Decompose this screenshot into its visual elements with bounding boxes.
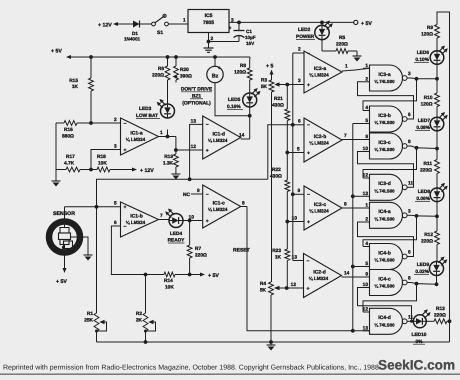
svg-text:IC1-c: IC1-c — [213, 201, 225, 207]
LED10 — [411, 320, 413, 322]
NAND gate IC3-d quarter 74LS00 — [370, 174, 403, 200]
node LED6 bottom — [435, 77, 439, 81]
svg-text:8: 8 — [408, 139, 411, 145]
wire R4 to bottom rail — [270, 295, 272, 342]
svg-text:R2: R2 — [136, 311, 142, 317]
svg-text:R15: R15 — [69, 78, 78, 84]
svg-text:Reprinted with permission from: Reprinted with permission from Radio-Ele… — [3, 364, 379, 372]
svg-text:5: 5 — [365, 118, 368, 124]
wire IC3-c out to LED7 node — [411, 146, 417, 148]
svg-text:¼ 74LS00: ¼ 74LS00 — [374, 79, 395, 84]
svg-text:430Ω: 430Ω — [270, 174, 282, 180]
svg-text:+ 5V: + 5V — [208, 273, 219, 279]
svg-text:120Ω: 120Ω — [234, 70, 246, 76]
node R20 top — [174, 55, 178, 59]
resistor R12 220 ohm — [436, 216, 438, 231]
node LED3 cathode — [166, 135, 170, 139]
svg-text:9: 9 — [365, 134, 368, 140]
potentiometer R3 5K — [269, 80, 274, 92]
svg-text:9: 9 — [298, 188, 301, 194]
svg-text:6: 6 — [298, 119, 301, 125]
svg-text:−: − — [307, 51, 310, 57]
svg-text:R18: R18 — [97, 154, 106, 160]
svg-text:4: 4 — [365, 241, 368, 247]
svg-text:3: 3 — [114, 144, 117, 150]
resistor R20 390 ohm — [175, 57, 177, 66]
svg-text:R7: R7 — [195, 246, 201, 252]
svg-text:R10: R10 — [424, 95, 433, 101]
node divider tap A — [285, 83, 289, 87]
svg-text:IC2-d: IC2-d — [313, 270, 326, 276]
IC4-b output stub — [407, 256, 411, 258]
IC3-b output stub — [407, 118, 411, 120]
svg-text:−: − — [206, 122, 209, 128]
wire S1 to IC5 pin 1 — [169, 23, 189, 25]
svg-text:3: 3 — [298, 78, 301, 84]
LED6 — [436, 38, 438, 51]
svg-text:1: 1 — [160, 130, 163, 136]
wire C1 to IC5 ground node — [209, 41, 240, 43]
svg-text:10K: 10K — [165, 285, 174, 291]
wire IC1-a out to R19 — [175, 137, 177, 151]
svg-text:LED5: LED5 — [228, 97, 241, 103]
resistor R8 120K — [249, 80, 251, 93]
svg-text:2: 2 — [114, 117, 117, 123]
resistor R5 220 ohm — [336, 49, 348, 54]
latch wires IC4-a/IC4-b — [363, 216, 417, 247]
svg-text:1: 1 — [345, 64, 348, 70]
svg-text:+ 5: + 5 — [266, 64, 273, 70]
svg-text:13: 13 — [191, 119, 197, 125]
svg-text:S1: S1 — [157, 30, 163, 36]
potentiometer R1 25K — [94, 313, 99, 331]
buzzer BZ1 — [214, 57, 216, 67]
svg-text:4: 4 — [365, 105, 368, 111]
comparator IC2-c — [304, 186, 342, 230]
resistor R6 220 ohm — [167, 57, 169, 66]
bottom ground rail — [97, 341, 450, 343]
svg-text:1: 1 — [365, 63, 368, 69]
svg-text:−: − — [124, 224, 127, 230]
node R17/R18/IC1-a pin3 — [89, 168, 93, 172]
node divider tap B — [285, 151, 289, 155]
wire IC4-a out to LED8 node — [411, 214, 417, 217]
latch wires IC3-a/IC3-b — [363, 79, 417, 111]
svg-text:NC: NC — [183, 192, 190, 198]
svg-text:+ 5V: + 5V — [51, 49, 62, 55]
node LED2 anode — [320, 21, 324, 25]
sensor right lead to ground — [71, 237, 89, 252]
wire tap B to IC2-b pin 5 — [287, 152, 304, 154]
svg-text:R9: R9 — [427, 25, 433, 31]
ground right of R5 — [356, 53, 358, 56]
wire R2 to bottom rail — [145, 331, 147, 342]
resistor R14 10K — [146, 274, 165, 276]
svg-text:R19: R19 — [164, 154, 173, 160]
latch wires IC4-c/IC4-d — [363, 284, 417, 312]
svg-text:120Ω: 120Ω — [421, 102, 433, 108]
wire R15 to node — [90, 91, 92, 123]
wire signal line riser — [268, 125, 293, 180]
node LED5 cathode — [248, 114, 252, 118]
node signal IC2-c pin 9 — [291, 192, 295, 196]
svg-text:4.7K: 4.7K — [64, 161, 75, 167]
wire IC2-b output pin 7 to IC3-c pin 9 — [342, 139, 370, 141]
svg-text:390Ω: 390Ω — [180, 74, 192, 80]
comparator IC2-a — [304, 51, 342, 93]
node RESET bottom — [351, 329, 355, 333]
svg-text:2K: 2K — [136, 318, 143, 324]
svg-text:25K: 25K — [84, 318, 93, 324]
wire R3 bottom chain — [271, 92, 273, 282]
svg-text:13: 13 — [363, 191, 369, 197]
IC4-d output stub — [407, 320, 411, 322]
svg-text:¼ LM324: ¼ LM324 — [208, 207, 228, 212]
resistor R23 1K — [286, 222, 288, 250]
wire R1 to bottom rail — [96, 331, 98, 342]
svg-text:READY: READY — [168, 238, 186, 244]
wire sensor node to R1 — [96, 207, 98, 313]
IC4-a output stub — [407, 214, 411, 216]
svg-text:R23: R23 — [272, 248, 281, 254]
svg-text:IC1-d: IC1-d — [212, 132, 225, 138]
wire IC3-a out to LED6 node — [411, 77, 417, 80]
wire R2 drop — [145, 275, 147, 314]
svg-text:+ 12V: + 12V — [98, 23, 112, 29]
wire +5V output rail from IC5 pin3 — [229, 21, 354, 23]
svg-text:¼ 74LS00: ¼ 74LS00 — [374, 284, 395, 289]
svg-text:12: 12 — [363, 173, 369, 179]
svg-text:R5: R5 — [339, 35, 345, 41]
IC3-c output stub — [407, 145, 411, 147]
node R15 top — [89, 55, 93, 59]
svg-text:IC4-a: IC4-a — [378, 209, 390, 215]
resistor R13 220 ohm — [426, 320, 434, 322]
svg-text:IC3-c: IC3-c — [378, 140, 390, 146]
resistor R17 4.7K — [56, 169, 66, 171]
svg-text:12: 12 — [363, 307, 369, 313]
svg-text:−: − — [307, 123, 310, 129]
potentiometer R2 2K — [143, 313, 148, 331]
node IC5 pin2 ground junction — [207, 40, 211, 44]
svg-text:¼ LM324: ¼ LM324 — [309, 141, 329, 146]
svg-text:220Ω: 220Ω — [420, 168, 432, 174]
IC3-d input stubs — [363, 177, 370, 179]
wire IC1-a pin 2 — [91, 122, 121, 124]
node IC1-a pin2 / R16 — [89, 121, 93, 125]
svg-text:¼ 74LS00: ¼ 74LS00 — [374, 147, 395, 152]
svg-text:¼ LM324: ¼ LM324 — [309, 209, 329, 214]
node R7 bottom — [188, 273, 192, 277]
svg-text:12: 12 — [191, 144, 197, 150]
svg-text:6: 6 — [408, 250, 411, 256]
node signal IC2-b pin 6 — [291, 123, 295, 127]
svg-text:IC4-b: IC4-b — [378, 250, 391, 256]
sensor top lead — [64, 207, 66, 222]
svg-text:+: + — [206, 218, 209, 224]
sensor bottom +5V — [64, 256, 66, 269]
wire IC2-a pin 2 — [293, 52, 304, 54]
wire IC2-c output pin 8 to IC4-a pin 1 — [342, 207, 370, 209]
wire +5V rail left — [71, 56, 250, 58]
svg-text:1.3K: 1.3K — [163, 161, 174, 167]
svg-text:8: 8 — [344, 202, 347, 208]
svg-text:LED6: LED6 — [417, 50, 430, 56]
svg-text:9: 9 — [197, 188, 200, 194]
svg-text:R13: R13 — [436, 306, 445, 312]
IC4-c output stub — [407, 282, 411, 284]
IC4-d input stubs — [363, 311, 370, 313]
svg-text:LED8: LED8 — [418, 189, 431, 195]
svg-text:+: + — [218, 66, 221, 72]
LED4 ready indicator — [169, 214, 183, 228]
LED8 — [430, 188, 444, 202]
svg-text:8: 8 — [408, 276, 411, 282]
svg-text:10K: 10K — [98, 161, 107, 167]
svg-text:10: 10 — [363, 146, 369, 152]
NAND gate IC3-b quarter 74LS00 — [370, 106, 403, 132]
svg-text:+ 5V: + 5V — [361, 21, 372, 27]
wire to +5V arrow bottom — [190, 274, 200, 276]
svg-text:IC5: IC5 — [205, 13, 213, 19]
svg-text:IC1-b: IC1-b — [130, 214, 143, 220]
svg-text:R8: R8 — [240, 63, 246, 69]
svg-text:1N4001: 1N4001 — [124, 37, 141, 42]
svg-text:R20: R20 — [180, 67, 189, 73]
node R7 top — [188, 219, 192, 223]
svg-text:R1: R1 — [87, 311, 93, 317]
resistor R19 1.3K — [175, 150, 177, 154]
svg-text:+: + — [307, 219, 310, 225]
svg-text:IC4-d: IC4-d — [378, 315, 391, 321]
wire sensor node up to signal line — [97, 179, 268, 207]
svg-text:¼ 74LS00: ¼ 74LS00 — [374, 120, 395, 125]
svg-text:+: + — [229, 26, 232, 32]
resistor R7 220 ohm — [189, 221, 191, 246]
node RESET IC4-b pin5 — [351, 265, 355, 269]
svg-text:SeekIC.com: SeekIC.com — [378, 358, 455, 373]
svg-text:R17: R17 — [66, 154, 75, 160]
svg-text:2: 2 — [298, 47, 301, 53]
svg-text:7: 7 — [344, 133, 347, 139]
sensor element symbol — [64, 219, 66, 228]
svg-text:1K: 1K — [275, 255, 282, 261]
comparator IC2-d — [304, 254, 342, 298]
NAND gate IC4-a quarter 74LS00 — [370, 202, 403, 228]
IC4-b input stubs — [363, 246, 370, 248]
resistor R21 430 ohm — [286, 85, 288, 110]
LED9 — [430, 262, 444, 276]
IC3-c input stubs — [363, 139, 370, 141]
svg-text:LED10: LED10 — [412, 332, 427, 338]
svg-text:IC4-c: IC4-c — [378, 276, 390, 282]
wire IC2-d pin 13 — [293, 260, 304, 262]
wire IC1-d pin 12 — [176, 149, 203, 151]
svg-text:¼ 74LS00: ¼ 74LS00 — [374, 258, 395, 263]
svg-text:IC2-c: IC2-c — [314, 202, 326, 208]
wire IC2-a output pin 1 — [342, 70, 355, 71]
svg-text:3: 3 — [408, 208, 411, 214]
NAND gate IC3-a quarter 74LS00 — [370, 65, 403, 91]
svg-text:¼ 74LS00: ¼ 74LS00 — [374, 188, 395, 193]
gas sensor ring — [49, 222, 80, 253]
svg-text:¼ LM324: ¼ LM324 — [309, 73, 329, 78]
resistor R22 430 ohm — [286, 153, 288, 181]
ground under R17 left — [55, 170, 57, 179]
svg-text:R6: R6 — [158, 66, 164, 72]
node R2 top — [144, 273, 148, 277]
node pin13 to signal line — [188, 177, 192, 181]
wire IC2-b pin 6 — [293, 124, 304, 126]
svg-text:R12: R12 — [424, 232, 433, 238]
IC3-a input stubs — [363, 67, 370, 69]
svg-text:14: 14 — [239, 133, 245, 139]
svg-text:220Ω: 220Ω — [336, 42, 348, 48]
wire IC2-c pin 9 — [293, 193, 304, 195]
diode D1 1N4001 — [131, 23, 133, 25]
svg-text:7: 7 — [160, 213, 163, 219]
svg-text:D1: D1 — [132, 31, 138, 36]
potentiometer R4 5K — [269, 282, 274, 295]
wire IC4-c out to LED9 node — [411, 283, 417, 284]
svg-text:430Ω: 430Ω — [272, 103, 284, 109]
svg-text:6: 6 — [114, 220, 117, 226]
terminal +5V top — [354, 20, 358, 24]
svg-text:IC3-a: IC3-a — [378, 72, 390, 78]
LED3 low battery indicator — [167, 130, 169, 137]
svg-text:5K: 5K — [260, 288, 267, 294]
wire IC1-a output pin 1 — [159, 136, 176, 138]
wire IC1-c output pin 8 RESET — [241, 206, 247, 208]
svg-text:120Ω: 120Ω — [421, 32, 433, 38]
svg-text:5: 5 — [114, 201, 117, 207]
svg-text:¼ LM324: ¼ LM324 — [126, 137, 146, 142]
svg-text:R21: R21 — [274, 96, 283, 102]
IC3-a output stub — [407, 77, 411, 79]
svg-text:IC3-b: IC3-b — [378, 113, 391, 119]
wire comparator signal vertical — [292, 53, 294, 261]
svg-text:+ 5V: + 5V — [56, 279, 67, 285]
op-amp IC1-a — [121, 118, 159, 155]
scan edge artifact bottom — [0, 373, 460, 375]
svg-text:−: − — [307, 192, 310, 198]
svg-text:220Ω: 220Ω — [421, 239, 433, 245]
svg-text:1: 1 — [365, 203, 368, 209]
node IC4-a out branch — [415, 214, 419, 218]
op-amp IC1-d — [203, 116, 241, 159]
wire R16 left down to R17 — [55, 123, 57, 170]
voltage regulator IC5 7805 — [188, 10, 229, 33]
svg-text:2: 2 — [365, 76, 368, 82]
node R2 bottom rail — [144, 340, 148, 344]
svg-text:5: 5 — [297, 147, 300, 153]
svg-text:IC3-d: IC3-d — [378, 181, 391, 187]
svg-text:LED9: LED9 — [417, 262, 430, 268]
wire R18 to +12V arrow — [110, 169, 132, 171]
node R13 right rail — [448, 319, 452, 323]
node divider tap D — [285, 286, 289, 290]
op-amp IC1-b — [121, 202, 159, 237]
svg-text:R22: R22 — [272, 167, 281, 173]
wire top right bracket — [437, 12, 450, 342]
svg-text:11: 11 — [408, 314, 413, 320]
node IC3-a out branch — [415, 77, 419, 81]
svg-text:¼ LM324: ¼ LM324 — [208, 138, 228, 143]
svg-text:8: 8 — [242, 201, 245, 207]
svg-text:+ 12V: + 12V — [140, 168, 154, 174]
node BZ1 top — [213, 55, 217, 59]
svg-text:+: + — [307, 286, 310, 292]
wire sensor node to IC1-b pin 5 — [65, 206, 121, 208]
svg-text:¼ 74LS00: ¼ 74LS00 — [374, 322, 395, 327]
wire IC1-b output pin 7 — [159, 219, 170, 221]
svg-text:6: 6 — [408, 112, 411, 118]
svg-text:220Ω: 220Ω — [195, 253, 207, 259]
svg-text:+: + — [206, 148, 209, 154]
svg-text:9: 9 — [365, 272, 368, 278]
svg-text:−: − — [124, 121, 127, 127]
node LED7 bottom — [435, 147, 439, 151]
svg-text:2: 2 — [365, 217, 368, 223]
svg-text:R3: R3 — [261, 78, 267, 84]
svg-text:IC1-a: IC1-a — [130, 131, 142, 137]
node C1 top — [237, 21, 241, 25]
node divider tap C — [285, 220, 289, 224]
svg-text:5: 5 — [365, 261, 368, 267]
svg-text:13: 13 — [363, 325, 369, 331]
svg-text:220Ω: 220Ω — [434, 313, 446, 319]
svg-text:+: + — [124, 147, 127, 153]
comparator IC2-b — [304, 118, 342, 162]
node LED8 bottom — [435, 214, 439, 218]
svg-text:C1: C1 — [246, 29, 252, 34]
svg-text:RESET: RESET — [233, 248, 250, 254]
node IC4-d out to LED10 — [410, 320, 413, 323]
svg-text:¼ LM324: ¼ LM324 — [309, 276, 329, 281]
node IC4-c out branch — [415, 282, 419, 286]
svg-text:220Ω: 220Ω — [152, 73, 164, 79]
wire R5 to ground — [348, 50, 357, 52]
svg-text:LED4: LED4 — [170, 231, 183, 237]
switch S1 — [146, 23, 152, 25]
node RESET IC3-d pin13 — [351, 194, 355, 198]
svg-text:1K: 1K — [72, 84, 79, 90]
IC5 pin 2 stub and label — [208, 33, 210, 45]
wire IC2-d output pin 14 to IC4-c pin 9 — [342, 276, 370, 278]
ground bottom rail — [270, 342, 272, 345]
svg-text:10µF: 10µF — [245, 35, 256, 40]
IC3-b input stubs — [363, 110, 370, 112]
IC4-a input stubs — [363, 207, 370, 209]
svg-text:+: + — [124, 205, 127, 211]
NAND gate IC4-d quarter 74LS00 — [370, 308, 403, 334]
resistor R16 880 ohm — [56, 122, 64, 124]
ground right of sensor — [87, 252, 89, 255]
wire R8 top to +5V rail — [249, 57, 251, 59]
svg-text:+: + — [307, 150, 310, 156]
wire IC1-a pin 3 — [91, 150, 121, 170]
svg-text:IC2-a: IC2-a — [314, 66, 326, 72]
svg-text:LED7: LED7 — [418, 118, 431, 124]
NAND gate IC4-b quarter 74LS00 — [370, 244, 403, 270]
node R19 top — [174, 148, 178, 152]
IC4-c input stubs — [363, 276, 370, 278]
svg-text:14: 14 — [344, 271, 350, 277]
svg-text:13: 13 — [292, 255, 298, 261]
LED7 — [430, 117, 444, 131]
op-amp IC1-c — [203, 185, 241, 228]
node IC3-c out branch — [415, 146, 419, 150]
